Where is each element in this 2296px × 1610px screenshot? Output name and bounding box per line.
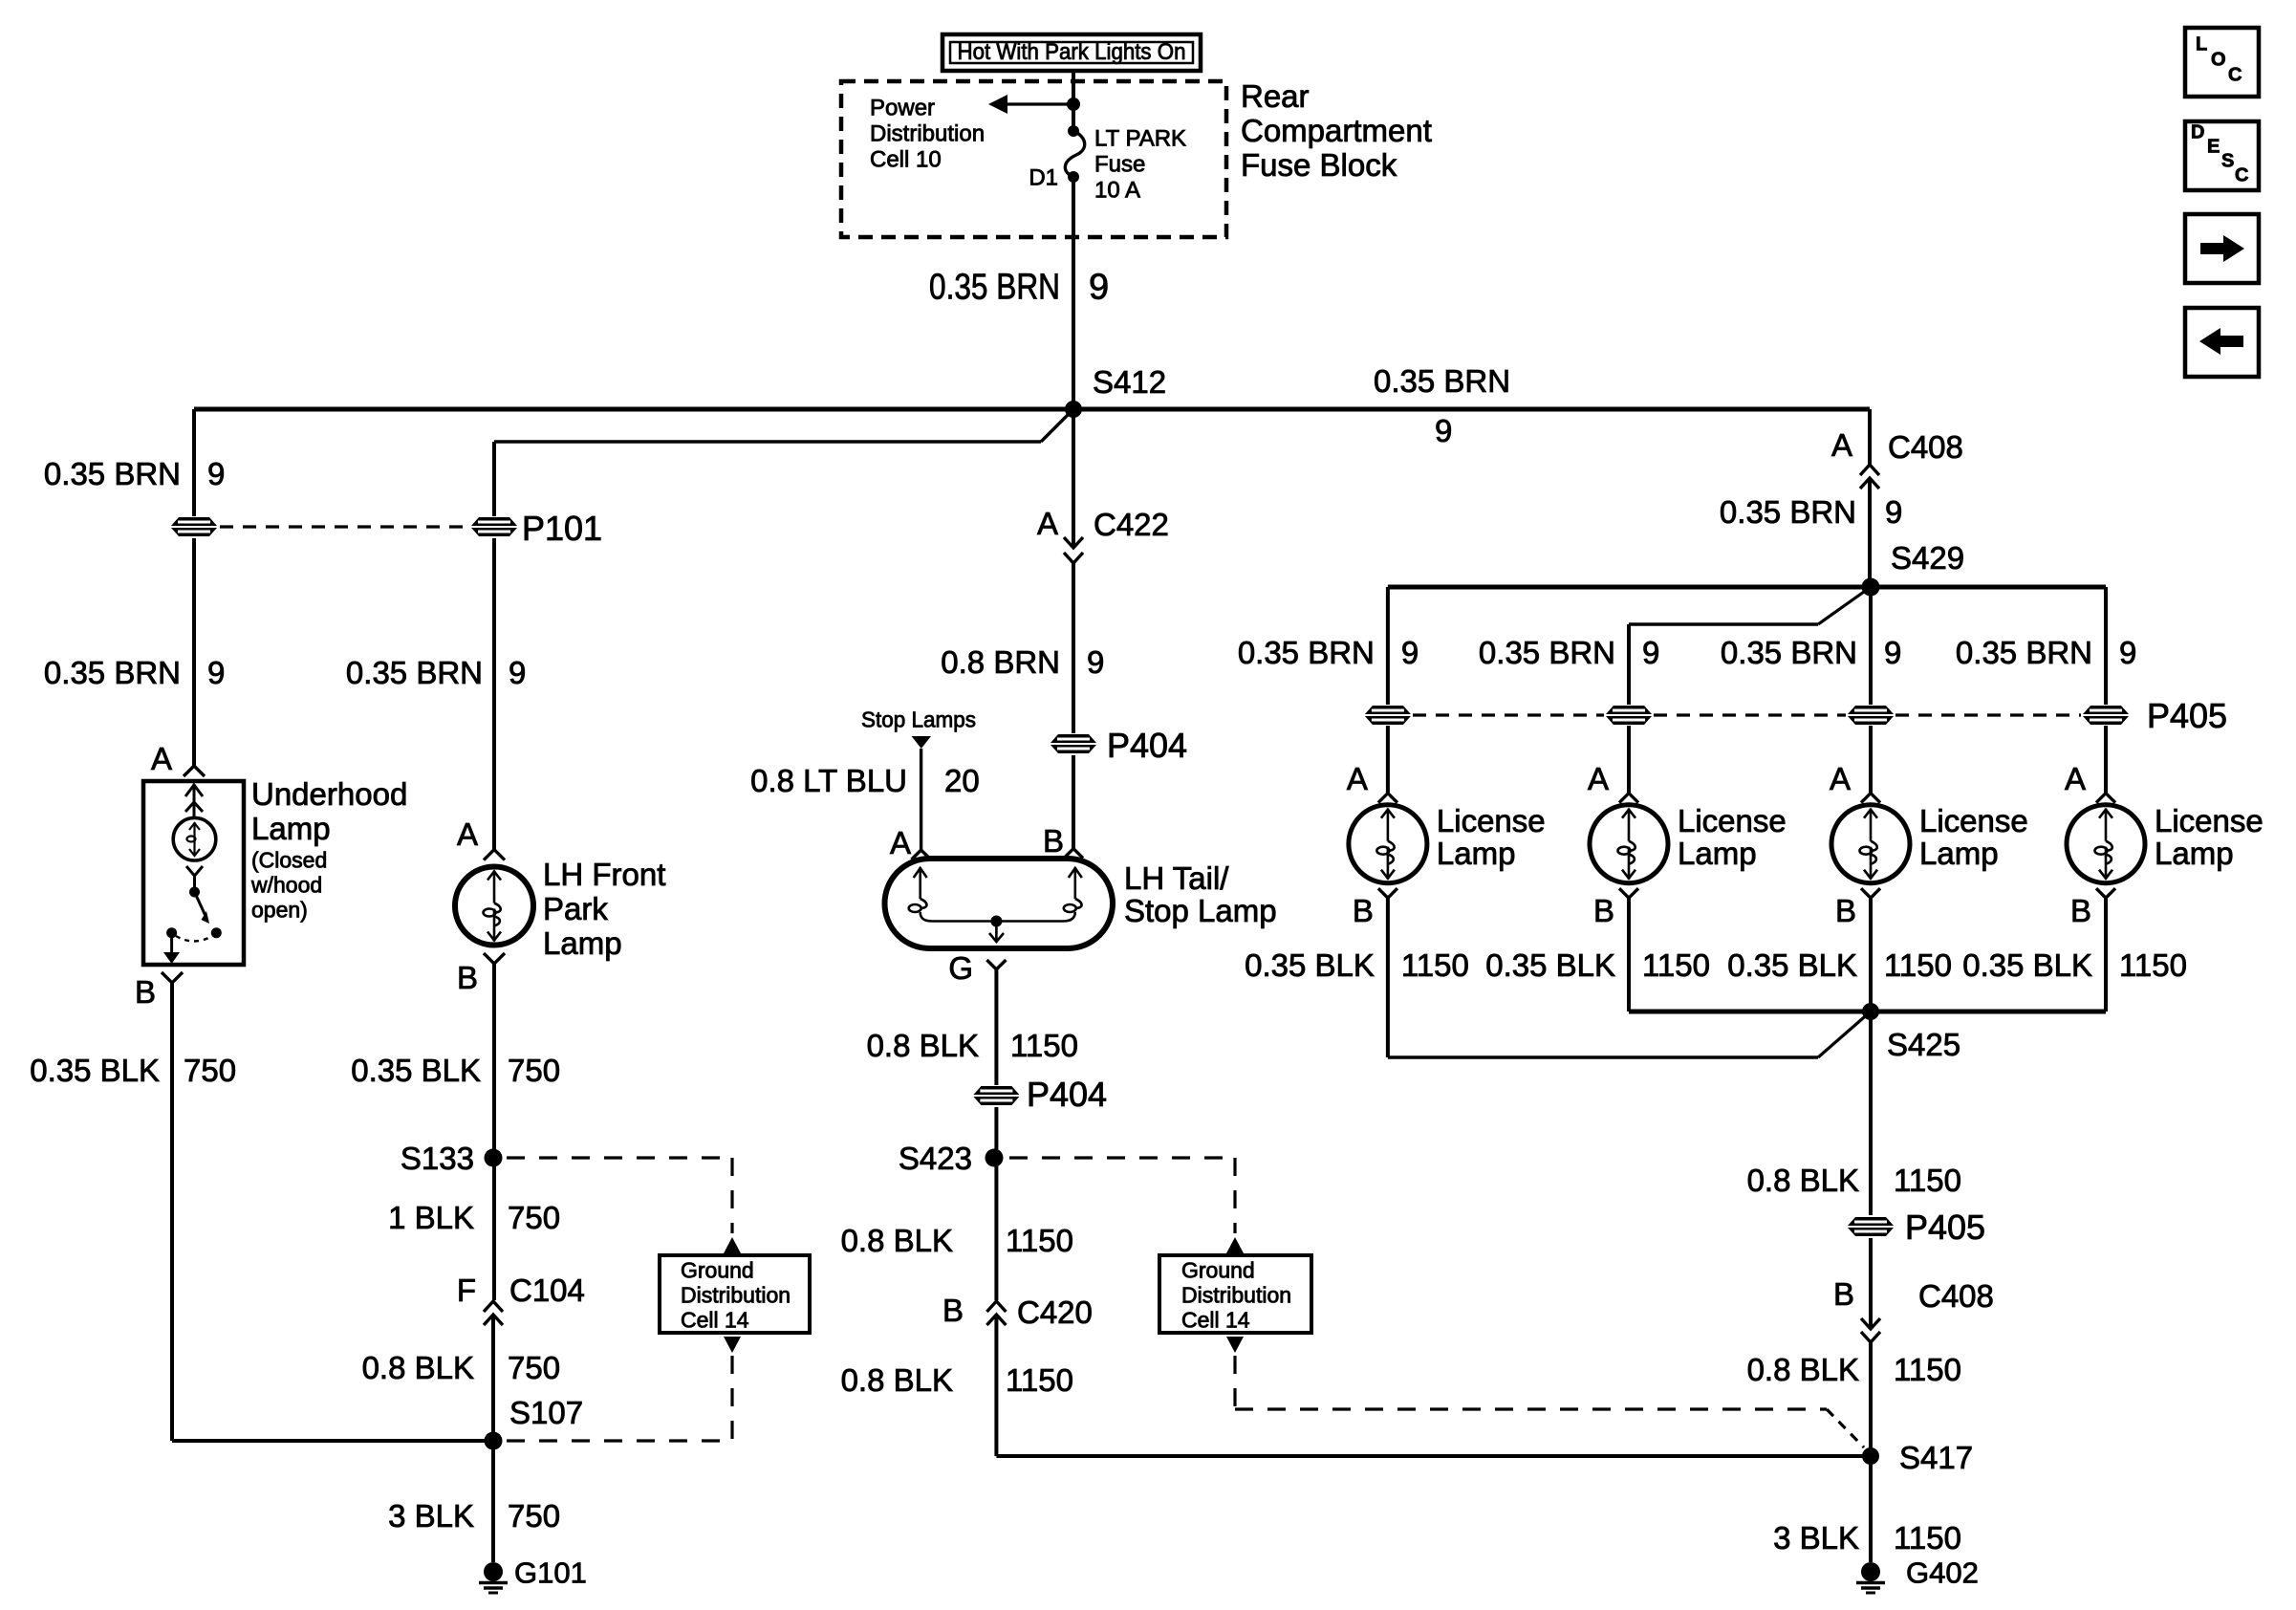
svg-text:Stop Lamp: Stop Lamp: [1124, 893, 1277, 928]
svg-text:750: 750: [508, 1053, 560, 1088]
svg-text:1 BLK: 1 BLK: [388, 1200, 474, 1235]
svg-text:LT PARK: LT PARK: [1094, 125, 1186, 151]
svg-text:Distribution: Distribution: [870, 120, 985, 146]
svg-text:C: C: [2228, 65, 2242, 86]
svg-text:Power: Power: [870, 95, 935, 120]
svg-text:0.35 BRN: 0.35 BRN: [1956, 635, 2092, 670]
svg-text:A: A: [1831, 427, 1852, 463]
svg-text:Lamp: Lamp: [2155, 836, 2234, 871]
svg-text:G101: G101: [514, 1556, 587, 1589]
svg-text:0.35 BRN: 0.35 BRN: [1721, 635, 1857, 670]
svg-text:A: A: [1588, 761, 1609, 796]
svg-text:0.8 BLK: 0.8 BLK: [867, 1028, 979, 1063]
svg-text:P101: P101: [522, 509, 602, 548]
svg-text:C: C: [2235, 165, 2248, 186]
svg-text:C104: C104: [509, 1273, 585, 1308]
svg-text:Fuse: Fuse: [1094, 151, 1145, 177]
svg-text:0.35 BRN: 0.35 BRN: [1479, 635, 1615, 670]
svg-text:Cell 14: Cell 14: [681, 1308, 749, 1333]
svg-text:A: A: [890, 825, 911, 860]
svg-text:9: 9: [207, 456, 225, 491]
svg-text:1150: 1150: [1010, 1028, 1078, 1063]
svg-text:9: 9: [1435, 413, 1452, 448]
svg-text:Compartment: Compartment: [1241, 113, 1432, 148]
svg-text:20: 20: [944, 763, 980, 798]
svg-text:0.35 BRN: 0.35 BRN: [1238, 635, 1375, 670]
svg-text:Ground: Ground: [1181, 1258, 1255, 1283]
svg-text:Lamp: Lamp: [1919, 836, 1999, 871]
svg-text:D: D: [2191, 122, 2204, 143]
svg-text:P404: P404: [1107, 726, 1187, 765]
svg-text:Rear: Rear: [1241, 78, 1310, 114]
svg-text:S107: S107: [509, 1395, 583, 1430]
svg-text:LH Front: LH Front: [543, 857, 665, 892]
svg-text:Cell 10: Cell 10: [870, 146, 942, 172]
svg-text:1150: 1150: [1894, 1520, 1961, 1556]
svg-text:0.8 LT BLU: 0.8 LT BLU: [750, 763, 907, 798]
svg-text:Park: Park: [543, 891, 608, 926]
svg-text:O: O: [2211, 50, 2226, 71]
svg-text:9: 9: [1089, 267, 1109, 307]
svg-text:A: A: [1830, 761, 1851, 796]
svg-text:B: B: [1043, 823, 1064, 859]
svg-text:Lamp: Lamp: [1678, 836, 1757, 871]
svg-text:Stop Lamps: Stop Lamps: [861, 707, 976, 732]
svg-text:9: 9: [1884, 635, 1901, 670]
svg-text:Fuse Block: Fuse Block: [1241, 147, 1397, 183]
svg-text:w/hood: w/hood: [250, 873, 322, 898]
svg-text:C408: C408: [1918, 1278, 1994, 1314]
svg-text:0.35 BLK: 0.35 BLK: [351, 1053, 481, 1088]
svg-text:0.35 BLK: 0.35 BLK: [1962, 947, 2092, 983]
svg-text:B: B: [942, 1293, 964, 1328]
svg-text:License: License: [1919, 803, 2028, 838]
svg-text:0.35 BRN: 0.35 BRN: [1720, 494, 1856, 530]
svg-text:0.35 BLK: 0.35 BLK: [30, 1053, 160, 1088]
svg-text:9: 9: [509, 655, 526, 690]
svg-text:9: 9: [1401, 635, 1419, 670]
svg-text:A: A: [151, 741, 172, 776]
svg-text:L: L: [2196, 34, 2207, 55]
svg-text:Distribution: Distribution: [681, 1283, 791, 1308]
svg-text:G402: G402: [1906, 1556, 1979, 1589]
svg-text:0.8 BLK: 0.8 BLK: [841, 1223, 953, 1258]
svg-text:B: B: [135, 974, 156, 1010]
svg-text:0.35 BRN: 0.35 BRN: [346, 655, 483, 690]
svg-text:3 BLK: 3 BLK: [1773, 1520, 1859, 1556]
svg-text:9: 9: [1087, 644, 1104, 680]
svg-text:0.35 BLK: 0.35 BLK: [1245, 947, 1375, 983]
svg-text:Cell 14: Cell 14: [1181, 1308, 1250, 1333]
svg-text:1150: 1150: [2119, 947, 2187, 983]
svg-text:0.8 BRN: 0.8 BRN: [941, 644, 1060, 680]
svg-text:Lamp: Lamp: [543, 925, 622, 961]
svg-text:A: A: [2065, 761, 2086, 796]
svg-text:A: A: [457, 816, 478, 852]
svg-text:S412: S412: [1093, 364, 1166, 400]
svg-text:B: B: [1833, 1276, 1854, 1312]
svg-text:B: B: [1835, 893, 1856, 928]
svg-text:(Closed: (Closed: [251, 848, 327, 873]
svg-text:P405: P405: [2147, 696, 2227, 735]
svg-text:open): open): [251, 898, 308, 923]
svg-text:1150: 1150: [1006, 1223, 1073, 1258]
svg-text:1150: 1150: [1884, 947, 1952, 983]
svg-text:750: 750: [508, 1200, 560, 1235]
svg-text:0.8 BLK: 0.8 BLK: [1747, 1163, 1859, 1198]
svg-text:3 BLK: 3 BLK: [388, 1498, 474, 1534]
svg-text:P404: P404: [1027, 1075, 1107, 1114]
svg-text:0.35 BRN: 0.35 BRN: [929, 267, 1060, 307]
svg-text:D1: D1: [1029, 164, 1058, 190]
svg-text:0.35 BLK: 0.35 BLK: [1727, 947, 1857, 983]
svg-text:License: License: [2155, 803, 2264, 838]
svg-text:1150: 1150: [1894, 1352, 1961, 1387]
svg-text:1150: 1150: [1894, 1163, 1961, 1198]
svg-text:Lamp: Lamp: [251, 811, 331, 846]
svg-text:E: E: [2207, 137, 2220, 158]
svg-text:License: License: [1678, 803, 1787, 838]
svg-text:750: 750: [508, 1350, 560, 1385]
svg-text:0.8 BLK: 0.8 BLK: [1747, 1352, 1859, 1387]
svg-text:P405: P405: [1905, 1207, 1985, 1247]
svg-text:S: S: [2221, 151, 2234, 172]
svg-text:S423: S423: [899, 1141, 972, 1176]
svg-text:G: G: [948, 950, 973, 986]
svg-text:0.35 BRN: 0.35 BRN: [44, 456, 181, 491]
svg-text:S133: S133: [401, 1141, 474, 1176]
svg-text:9: 9: [207, 655, 225, 690]
svg-text:0.8 BLK: 0.8 BLK: [362, 1350, 474, 1385]
svg-text:1150: 1150: [1401, 947, 1469, 983]
svg-text:S429: S429: [1891, 540, 1964, 576]
svg-text:B: B: [1593, 893, 1614, 928]
svg-text:750: 750: [184, 1053, 236, 1088]
svg-text:Ground: Ground: [681, 1258, 754, 1283]
svg-text:0.8 BLK: 0.8 BLK: [841, 1362, 953, 1398]
svg-text:C422: C422: [1094, 507, 1169, 542]
svg-text:S417: S417: [1899, 1440, 1973, 1475]
svg-text:S425: S425: [1887, 1027, 1960, 1062]
svg-text:9: 9: [1885, 494, 1902, 530]
svg-text:Lamp: Lamp: [1437, 836, 1516, 871]
svg-text:A: A: [1037, 506, 1058, 541]
svg-text:0.35 BRN: 0.35 BRN: [44, 655, 181, 690]
svg-text:9: 9: [1642, 635, 1659, 670]
svg-text:B: B: [1353, 893, 1374, 928]
svg-text:C420: C420: [1017, 1295, 1093, 1330]
svg-text:Hot With Park Lights On: Hot With Park Lights On: [958, 39, 1186, 65]
svg-text:0.35 BLK: 0.35 BLK: [1485, 947, 1615, 983]
svg-text:F: F: [457, 1273, 476, 1308]
svg-text:1150: 1150: [1642, 947, 1710, 983]
svg-text:A: A: [1347, 761, 1368, 796]
svg-text:B: B: [457, 960, 478, 995]
svg-text:B: B: [2070, 893, 2091, 928]
svg-text:750: 750: [508, 1498, 560, 1534]
svg-text:9: 9: [2119, 635, 2136, 670]
svg-text:C408: C408: [1888, 429, 1963, 465]
svg-text:10 A: 10 A: [1094, 177, 1140, 203]
svg-text:0.35 BRN: 0.35 BRN: [1374, 363, 1510, 399]
svg-text:LH Tail/: LH Tail/: [1124, 860, 1229, 896]
svg-text:1150: 1150: [1006, 1362, 1073, 1398]
svg-text:License: License: [1437, 803, 1546, 838]
svg-text:Underhood: Underhood: [251, 776, 407, 812]
svg-text:Distribution: Distribution: [1181, 1283, 1291, 1308]
